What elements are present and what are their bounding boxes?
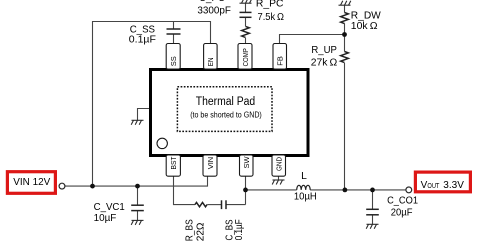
svg-text:C_PC: C_PC	[199, 0, 226, 4]
svg-text:(to be shorted to GND): (to be shorted to GND)	[190, 111, 262, 120]
svg-text:22Ω: 22Ω	[195, 222, 206, 241]
svg-text:3.3V: 3.3V	[443, 180, 464, 191]
svg-text:SW: SW	[242, 155, 251, 168]
svg-text:FB: FB	[276, 56, 285, 66]
svg-text:10µF: 10µF	[94, 213, 117, 224]
svg-text:R_UP: R_UP	[311, 45, 337, 56]
svg-text:VIN: VIN	[206, 157, 215, 170]
svg-text:Thermal Pad: Thermal Pad	[196, 96, 255, 108]
svg-text:BST: BST	[169, 156, 178, 169]
svg-text:COMP: COMP	[241, 48, 250, 66]
svg-text:0.1µF: 0.1µF	[234, 219, 245, 240]
svg-text:GND: GND	[275, 157, 284, 171]
svg-text:C_CO1: C_CO1	[387, 196, 418, 207]
svg-text:OUT: OUT	[427, 181, 439, 190]
svg-text:10k Ω: 10k Ω	[351, 21, 378, 32]
svg-text:0.1µF: 0.1µF	[129, 35, 156, 46]
svg-text:R_BS: R_BS	[184, 219, 195, 241]
svg-text:C_VC1: C_VC1	[94, 202, 125, 213]
svg-text:10µH: 10µH	[294, 192, 317, 203]
svg-text:27k Ω: 27k Ω	[311, 57, 338, 68]
svg-text:R_PC: R_PC	[256, 0, 284, 10]
svg-text:VIN 12V: VIN 12V	[13, 177, 50, 188]
svg-text:3300pF: 3300pF	[197, 5, 231, 16]
svg-text:R_DW: R_DW	[351, 10, 381, 21]
svg-text:SS: SS	[169, 56, 178, 66]
svg-text:20µF: 20µF	[391, 208, 413, 219]
svg-text:EN: EN	[206, 58, 215, 67]
svg-text:7.5k Ω: 7.5k Ω	[258, 12, 285, 23]
svg-text:L: L	[301, 171, 307, 182]
